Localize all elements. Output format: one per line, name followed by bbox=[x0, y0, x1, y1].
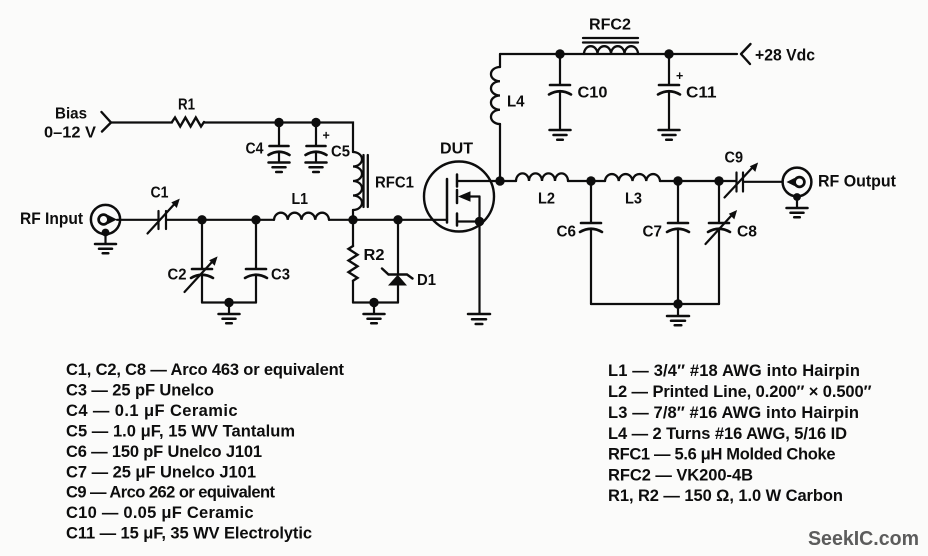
RF output connector bbox=[783, 168, 897, 197]
wire L3 to C9 bbox=[660, 180, 736, 182]
svg-text:RFC1 — 5.6 μH Molded Choke: RFC1 — 5.6 μH Molded Choke bbox=[608, 446, 836, 464]
svg-text:RFC2 — VK200-4B: RFC2 — VK200-4B bbox=[608, 467, 753, 485]
capacitor C6 bbox=[557, 181, 603, 304]
svg-text:C3 — 25 pF Unelco: C3 — 25 pF Unelco bbox=[66, 382, 214, 400]
svg-text:C9: C9 bbox=[725, 150, 744, 167]
ground C10 bbox=[550, 130, 571, 140]
capacitor C7 bbox=[643, 181, 690, 304]
wire top rail bbox=[500, 53, 737, 55]
capacitor C3 bbox=[245, 220, 290, 303]
inductor L1 bbox=[274, 191, 329, 220]
svg-text:L2 — Printed Line, 0.200″ × 0.: L2 — Printed Line, 0.200″ × 0.500″ bbox=[608, 383, 872, 401]
junction node C8 bbox=[714, 176, 723, 185]
junction node D1 bbox=[393, 215, 402, 224]
capacitor C2 (variable) bbox=[168, 220, 218, 303]
svg-text:C3: C3 bbox=[271, 267, 290, 284]
junction node C4 bbox=[274, 118, 283, 127]
junction node C6 bbox=[586, 176, 595, 185]
capacitor C8 (variable) bbox=[706, 181, 758, 304]
ground C11 bbox=[659, 130, 680, 140]
wire L1 to gate bbox=[329, 219, 447, 221]
ground output filter bbox=[667, 304, 689, 325]
junction node C10 bbox=[555, 49, 564, 58]
wire source to ground bbox=[478, 222, 480, 314]
junction node C3 bbox=[251, 215, 260, 224]
wire L2 to L3 bbox=[568, 180, 605, 182]
svg-text:L1 — 3/4″ #18 AWG into Hairpin: L1 — 3/4″ #18 AWG into Hairpin bbox=[608, 362, 860, 380]
junction node output ground bbox=[673, 299, 682, 308]
svg-text:RF Output: RF Output bbox=[818, 172, 896, 191]
resistor R2 bbox=[349, 220, 385, 303]
svg-text:D1: D1 bbox=[417, 272, 436, 289]
+28 Vdc terminal bbox=[741, 44, 815, 65]
junction node RFC1/R2 bbox=[348, 215, 357, 224]
svg-text:C5 — 1.0 μF, 15 WV Tantalum: C5 — 1.0 μF, 15 WV Tantalum bbox=[66, 423, 295, 441]
svg-text:Bias: Bias bbox=[55, 106, 87, 123]
svg-text:R1: R1 bbox=[178, 97, 195, 114]
bias terminal bbox=[44, 106, 111, 142]
inductor L3 bbox=[605, 174, 660, 207]
svg-text:DUT: DUT bbox=[440, 141, 474, 158]
svg-text:C4 — 0.1 μF Ceramic: C4 — 0.1 μF Ceramic bbox=[66, 402, 238, 420]
svg-text:RFC2: RFC2 bbox=[589, 17, 631, 34]
svg-text:C2: C2 bbox=[168, 267, 187, 284]
transistor DUT (MOSFET) bbox=[424, 141, 500, 232]
svg-text:C10: C10 bbox=[578, 85, 608, 102]
resistor R1 bbox=[172, 97, 204, 127]
svg-text:L1: L1 bbox=[292, 191, 309, 208]
wire R1 to RFC1 corner bbox=[204, 123, 353, 153]
svg-text:C7 — 25 μF Unelco J101: C7 — 25 μF Unelco J101 bbox=[66, 464, 256, 482]
ground RF input bbox=[95, 229, 116, 254]
svg-text:C1: C1 bbox=[151, 185, 169, 202]
capacitor C5 bbox=[306, 123, 351, 161]
wire input to C1 bbox=[117, 219, 158, 221]
wire bias to R1 bbox=[111, 121, 172, 123]
svg-text:R1, R2 — 150 Ω, 1.0 W Carbon: R1, R2 — 150 Ω, 1.0 W Carbon bbox=[608, 487, 843, 505]
svg-text:+: + bbox=[323, 129, 330, 143]
svg-text:C1, C2, C8 — Arco 463 or equiv: C1, C2, C8 — Arco 463 or equivalent bbox=[66, 361, 345, 379]
svg-text:C8: C8 bbox=[737, 224, 757, 241]
svg-text:+28 Vdc: +28 Vdc bbox=[755, 46, 815, 65]
parts list left column bbox=[66, 361, 345, 543]
svg-text:C7: C7 bbox=[643, 224, 663, 241]
capacitor C11 bbox=[658, 54, 717, 129]
ground C5 bbox=[306, 153, 327, 172]
svg-text:C4: C4 bbox=[246, 141, 264, 158]
ground R2 D1 bbox=[364, 303, 385, 324]
svg-text:RFC1: RFC1 bbox=[375, 175, 414, 192]
wire R2 D1 bottom bus bbox=[353, 301, 398, 303]
wire C9 to output bbox=[743, 181, 782, 183]
junction node C2 bbox=[197, 215, 206, 224]
inductor L4 bbox=[491, 54, 525, 181]
svg-text:C5: C5 bbox=[331, 144, 350, 161]
svg-text:SeekIC.com: SeekIC.com bbox=[808, 527, 919, 550]
svg-text:0–12 V: 0–12 V bbox=[44, 125, 96, 142]
ground C2 C3 bbox=[219, 303, 240, 324]
inductor RFC1 bbox=[353, 152, 414, 220]
capacitor C9 (variable) bbox=[725, 150, 759, 198]
svg-text:+: + bbox=[676, 69, 683, 83]
svg-text:L3: L3 bbox=[625, 191, 642, 208]
capacitor C10 bbox=[549, 54, 608, 129]
junction node C7 bbox=[673, 176, 682, 185]
junction node source bbox=[475, 217, 484, 226]
ground source bbox=[468, 314, 490, 324]
svg-text:L3 — 7/8″ #16 AWG into Hairpin: L3 — 7/8″ #16 AWG into Hairpin bbox=[608, 404, 859, 422]
ground RF output bbox=[787, 193, 808, 217]
svg-text:C6 — 150 pF Unelco J101: C6 — 150 pF Unelco J101 bbox=[66, 443, 262, 461]
ground C4 bbox=[269, 153, 290, 172]
svg-text:C11: C11 bbox=[686, 85, 717, 102]
junction node C5 bbox=[311, 118, 320, 127]
wire C1 to L1 bbox=[166, 219, 274, 221]
svg-text:C6: C6 bbox=[557, 224, 577, 241]
inductor L2 bbox=[500, 173, 568, 207]
inductor RFC2 bbox=[583, 17, 638, 55]
junction node drain bbox=[495, 176, 504, 185]
diode D1 (zener) bbox=[382, 220, 436, 303]
svg-text:L4: L4 bbox=[507, 94, 525, 111]
svg-text:RF Input: RF Input bbox=[20, 209, 83, 228]
wire C2 C3 bottom bus bbox=[202, 301, 256, 303]
svg-text:R2: R2 bbox=[364, 247, 385, 264]
junction node C11 bbox=[664, 49, 673, 58]
junction node C2/C3 ground bbox=[224, 298, 233, 307]
wire output bottom bus bbox=[591, 303, 719, 305]
capacitor C4 bbox=[246, 123, 290, 158]
svg-text:C11 — 15 μF, 35 WV Electrolyti: C11 — 15 μF, 35 WV Electrolytic bbox=[66, 525, 312, 543]
svg-text:L2: L2 bbox=[538, 191, 555, 208]
RF input connector bbox=[20, 205, 120, 234]
svg-text:C9 — Arco 262 or equivalent: C9 — Arco 262 or equivalent bbox=[66, 484, 276, 502]
capacitor C1 (variable) bbox=[148, 185, 180, 234]
junction node R2/D1 ground bbox=[369, 298, 378, 307]
svg-text:L4 — 2 Turns #16 AWG, 5/16 ID: L4 — 2 Turns #16 AWG, 5/16 ID bbox=[608, 425, 847, 443]
parts list right column bbox=[608, 362, 872, 505]
svg-text:C10 — 0.05 μF Ceramic: C10 — 0.05 μF Ceramic bbox=[66, 504, 254, 522]
